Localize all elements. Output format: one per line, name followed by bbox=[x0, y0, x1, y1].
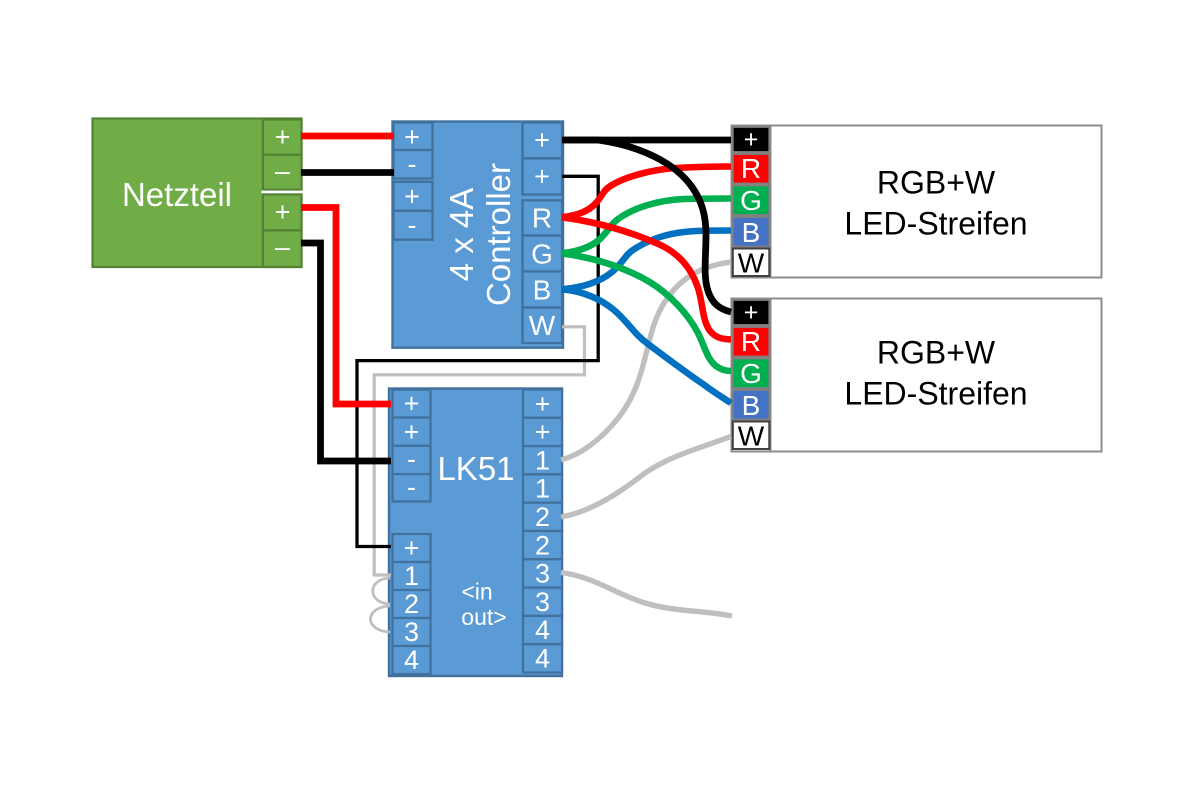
LK51 right pin 1b bbox=[523, 474, 562, 504]
svg-text:3: 3 bbox=[535, 587, 550, 617]
svg-text:G: G bbox=[531, 239, 553, 270]
svg-text:R: R bbox=[741, 153, 761, 184]
Netzteil terminal V+ (second) bbox=[263, 194, 302, 230]
svg-text:LK51: LK51 bbox=[437, 450, 514, 487]
svg-text:B: B bbox=[533, 275, 552, 306]
strip2 terminal W bbox=[733, 421, 770, 452]
svg-text:Netzteil: Netzteil bbox=[122, 176, 232, 213]
controller U1 4x4A bbox=[393, 122, 564, 348]
svg-text:4 x 4A: 4 x 4A bbox=[443, 188, 480, 282]
svg-text:-: - bbox=[408, 210, 417, 240]
LK51 left pin 1 bbox=[393, 561, 431, 591]
svg-text:+: + bbox=[534, 162, 550, 192]
wire black: controller +out1 branch to strip2 + bbox=[565, 140, 731, 312]
svg-text:3: 3 bbox=[535, 559, 550, 589]
svg-text:+: + bbox=[744, 126, 759, 154]
svg-text:2: 2 bbox=[535, 502, 550, 532]
wire black: controller +out1 to strip1 + bbox=[562, 137, 731, 144]
LK51 right pin 2a bbox=[523, 502, 562, 532]
wire gray: LK51 out 3a loose end bbox=[561, 573, 732, 617]
wire gray jumper loop LK51 2-3 bbox=[371, 606, 391, 632]
svg-text:+: + bbox=[275, 122, 291, 152]
svg-text:<in: <in bbox=[461, 579, 492, 605]
svg-text:-: - bbox=[407, 444, 416, 474]
LK51 left pin 2 bbox=[393, 589, 431, 619]
LK51 right pin 4a bbox=[523, 615, 562, 645]
LK51 left pin + (in 2) bbox=[393, 417, 431, 447]
svg-text:RGB+W: RGB+W bbox=[877, 165, 996, 201]
svg-text:2: 2 bbox=[404, 589, 419, 619]
LK51 right pin 3b bbox=[523, 587, 562, 617]
controller right pin W bbox=[523, 308, 563, 344]
wire red: Netzteil V+2 to LK51 + bbox=[301, 208, 391, 405]
LK51 left pin 4 bbox=[393, 645, 431, 675]
svg-text:LED-Streifen: LED-Streifen bbox=[844, 206, 1027, 242]
controller right pin + out2 bbox=[523, 158, 563, 194]
strip1 terminal + bbox=[733, 126, 770, 154]
strip2 terminal + bbox=[733, 299, 770, 327]
svg-text:+: + bbox=[534, 125, 550, 155]
wire black: Netzteil V-2 to LK51 - bbox=[301, 243, 391, 461]
wire gray: LK51 out 2a to strip2 W bbox=[561, 437, 731, 518]
Netzteil terminal V- (second) bbox=[263, 230, 302, 267]
LED strip 2 RGB+W bbox=[732, 299, 1102, 452]
wire gray: LK51 out 1a to strip1 W bbox=[561, 262, 731, 460]
strip2 terminal R bbox=[733, 326, 770, 357]
controller left pin + (power in) bbox=[394, 122, 433, 152]
svg-text:–: – bbox=[275, 156, 290, 186]
svg-text:G: G bbox=[740, 185, 762, 216]
LK51 right pin 4b bbox=[523, 644, 562, 674]
svg-text:2: 2 bbox=[535, 530, 550, 560]
controller left pin + (second block) bbox=[394, 182, 433, 212]
svg-text:+: + bbox=[404, 417, 420, 447]
controller left pin - bbox=[394, 149, 433, 179]
wire W gray: controller W to LK51 data-in 1 bbox=[374, 327, 584, 575]
wire red: Netzteil V+ to controller + bbox=[301, 133, 394, 140]
LK51 left pin 3 bbox=[393, 617, 431, 647]
svg-text:G: G bbox=[740, 358, 762, 389]
strip2 terminal B bbox=[733, 390, 770, 421]
svg-text:1: 1 bbox=[535, 474, 550, 504]
wire green: controller G to strip1 G bbox=[562, 199, 731, 254]
svg-text:W: W bbox=[738, 421, 765, 452]
controller right pin B bbox=[523, 272, 563, 308]
svg-text:-: - bbox=[407, 472, 416, 502]
LK51 left pin + (data block) bbox=[393, 533, 431, 563]
svg-text:W: W bbox=[738, 248, 765, 279]
wire green: controller G to strip2 G bbox=[562, 253, 731, 371]
svg-text:+: + bbox=[275, 197, 291, 227]
strip1 terminal W bbox=[733, 248, 770, 279]
svg-text:+: + bbox=[404, 533, 420, 563]
svg-text:4: 4 bbox=[404, 645, 419, 675]
LED strip 1 RGB+W bbox=[732, 126, 1102, 278]
svg-text:+: + bbox=[404, 182, 420, 212]
wire red: controller R to strip2 R bbox=[562, 217, 731, 339]
controller right pin + out1 bbox=[523, 123, 563, 159]
svg-text:LED-Streifen: LED-Streifen bbox=[844, 376, 1027, 412]
LK51 right pin + out b bbox=[523, 417, 562, 447]
LK51 right pin + out a bbox=[523, 389, 562, 419]
Netzteil terminal V+ (top) bbox=[263, 120, 302, 155]
strip2 terminal block backdrop bbox=[732, 299, 771, 450]
wire black: Netzteil V- to controller - bbox=[301, 169, 394, 176]
LK51 right pin 2b bbox=[523, 530, 562, 560]
power supply Netzteil bbox=[93, 119, 302, 268]
LK51 left pin - (in 4) bbox=[393, 472, 431, 502]
strip2 terminal G bbox=[733, 358, 770, 389]
wire red: controller R to strip1 R bbox=[562, 167, 731, 218]
svg-text:-: - bbox=[408, 149, 417, 179]
LK51 right pin 1a bbox=[523, 445, 562, 475]
svg-text:B: B bbox=[742, 217, 761, 248]
gap between Netzteil terminal blocks bbox=[262, 191, 304, 194]
LK51 right pin 3a bbox=[523, 559, 562, 589]
svg-text:+: + bbox=[404, 389, 420, 419]
wire blue: controller B to strip2 B bbox=[562, 289, 731, 403]
svg-text:1: 1 bbox=[535, 445, 550, 475]
svg-text:out>: out> bbox=[461, 604, 506, 630]
wire black thin: controller +out2 to LK51 data + bbox=[357, 176, 598, 546]
svg-text:+: + bbox=[535, 417, 551, 447]
strip1 terminal block backdrop bbox=[732, 126, 771, 277]
Netzteil terminal V- bbox=[263, 155, 302, 190]
LK51 left pin - (in 3) bbox=[393, 444, 431, 474]
controller right pin R bbox=[523, 200, 563, 235]
wire gray jumper loop LK51 1-2 bbox=[373, 578, 390, 604]
svg-text:3: 3 bbox=[404, 617, 419, 647]
LED amplifier LK51 bbox=[389, 389, 562, 677]
svg-text:4: 4 bbox=[535, 644, 550, 674]
svg-text:W: W bbox=[529, 310, 556, 341]
svg-text:1: 1 bbox=[404, 561, 419, 591]
svg-text:+: + bbox=[744, 299, 759, 327]
svg-text:R: R bbox=[532, 203, 552, 234]
controller left pin - (second block) bbox=[394, 210, 433, 240]
svg-text:B: B bbox=[742, 390, 761, 421]
controller right pin G bbox=[523, 236, 563, 272]
strip1 terminal B bbox=[733, 217, 770, 248]
svg-text:+: + bbox=[535, 389, 551, 419]
svg-text:+: + bbox=[404, 122, 420, 152]
LK51 left pin + (in 1) bbox=[393, 389, 431, 419]
strip1 terminal G bbox=[733, 185, 770, 216]
svg-text:–: – bbox=[275, 232, 290, 262]
svg-text:4: 4 bbox=[535, 615, 550, 645]
svg-text:R: R bbox=[741, 326, 761, 357]
svg-text:RGB+W: RGB+W bbox=[877, 335, 996, 371]
strip1 terminal R bbox=[733, 153, 770, 184]
svg-text:Controller: Controller bbox=[480, 163, 517, 306]
wire blue: controller B to strip1 B bbox=[562, 231, 731, 290]
